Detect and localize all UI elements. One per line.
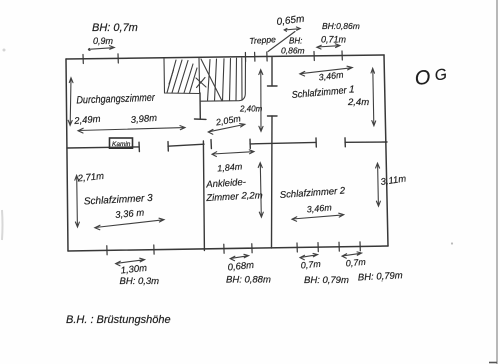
wall vertical x272 upper stub (271, 58, 273, 87)
wall stub x200 below stairs (199, 93, 201, 119)
dim arrow 1,30m (116, 258, 145, 266)
svg-text:Zimmer: Zimmer (205, 191, 240, 204)
dim arrow 1,84m (212, 150, 254, 157)
dim arrow vertical schlafzimmer1 2,4m (371, 68, 376, 125)
svg-text:BH:0,86m: BH:0,86m (322, 21, 360, 31)
wall outer left (66, 59, 68, 251)
window tick x318 bottom (317, 243, 319, 252)
svg-text:O: O (414, 66, 432, 90)
svg-text:0,9m: 0,9m (93, 36, 114, 46)
svg-text:0,65m: 0,65m (276, 14, 305, 28)
dim arrow 0,7m second (342, 252, 362, 258)
svg-text:2,49m: 2,49m (73, 114, 101, 127)
door jamb tick x250 (249, 139, 251, 148)
svg-text:0,68m: 0,68m (227, 260, 254, 274)
dim arrow 3,98m (78, 126, 185, 133)
wall vertical x272 lower run (271, 116, 274, 248)
svg-text:1,30m: 1,30m (120, 263, 147, 277)
window tick x118 top (117, 54, 119, 63)
window tick x360 bottom (359, 242, 361, 251)
svg-text:2,4m: 2,4m (347, 97, 369, 108)
svg-text:3,11m: 3,11m (380, 173, 407, 187)
stairs left box outline (164, 59, 199, 94)
door jamb tick x168 (167, 142, 169, 151)
svg-text:3,46m: 3,46m (306, 202, 332, 214)
dim arrow 0,9m (88, 46, 114, 51)
window tick x255 top (254, 52, 256, 61)
svg-text:BH:: BH: (289, 37, 302, 46)
svg-text:BH: 0,88m: BH: 0,88m (226, 275, 271, 286)
wall outer right (384, 55, 388, 246)
window tick x224 bottom (223, 244, 225, 253)
stairs right box outline (201, 57, 246, 101)
svg-text:0,7m: 0,7m (345, 257, 366, 269)
window tick x342 top (341, 51, 343, 60)
window tick x154 bottom (153, 245, 155, 254)
svg-text:Schlafzimmer: Schlafzimmer (291, 85, 347, 101)
svg-text:BH: 0,7m: BH: 0,7m (92, 22, 138, 34)
svg-text:Schlafzimmer 3: Schlafzimmer 3 (84, 193, 154, 208)
stairs left box hatching (167, 60, 176, 93)
door jamb tick x139 (138, 142, 140, 151)
faint smudge top-left (3, 49, 6, 52)
window tick x314 top (313, 52, 315, 61)
door jamb tick x345 (344, 138, 346, 147)
svg-text:0,7m: 0,7m (300, 259, 321, 271)
stairs x-mark at landing (196, 78, 206, 88)
window tick x297 bottom (296, 243, 298, 252)
wall divider segment D (345, 141, 387, 143)
dim arrow vertical stairs 2,40m (259, 70, 263, 132)
dim arrow 0,65m (284, 27, 300, 31)
stairs boundary x199 (198, 58, 201, 93)
svg-text:2,40m: 2,40m (239, 105, 263, 114)
svg-text:Treppe: Treppe (249, 34, 276, 46)
window tick x83 top (82, 55, 84, 64)
dim arrow 0,71m (317, 44, 340, 49)
svg-text:Kamin: Kamin (112, 141, 131, 148)
dim arrow vertical 2,49m (68, 78, 73, 126)
faint smudge left edge (1, 210, 4, 240)
door jamb T-bar y86 (268, 85, 278, 87)
svg-text:2,2m: 2,2m (241, 191, 263, 202)
svg-text:0,86m: 0,86m (281, 46, 305, 56)
window tick x245 top (244, 53, 246, 62)
svg-text:BH: 0,3m: BH: 0,3m (120, 276, 160, 287)
window tick x339 bottom (338, 242, 340, 251)
wall outer bottom (68, 246, 388, 251)
svg-text:0,71m: 0,71m (321, 35, 347, 45)
scan mark bottom-right (489, 362, 497, 364)
svg-text:G: G (434, 66, 448, 85)
svg-text:1: 1 (349, 85, 355, 96)
door jamb T-bar y116 (268, 115, 278, 117)
dim arrow vertical ankleide 2,2m (258, 163, 263, 217)
svg-text:BH: 0,79m: BH: 0,79m (358, 270, 403, 283)
dim arrow 0,7m first (300, 253, 318, 259)
window tick x252 bottom (251, 244, 253, 253)
svg-text:3,36 m: 3,36 m (115, 207, 145, 220)
svg-text:2,71m: 2,71m (76, 171, 104, 185)
scan edge right (496, 0, 498, 364)
wall divider segment C (250, 142, 316, 144)
wall outer top (66, 55, 384, 59)
dim arrow 3,36m (95, 218, 164, 230)
svg-text:3,46m: 3,46m (318, 69, 345, 82)
kamin box (110, 138, 133, 148)
wall divider segment B (168, 144, 204, 146)
door jamb tick x211 (210, 140, 212, 149)
svg-text:Durchgangszimmer: Durchgangszimmer (76, 92, 155, 107)
stairs right box hatching (201, 59, 222, 101)
svg-text:BH: 0,79m: BH: 0,79m (304, 275, 349, 286)
svg-text:3,98m: 3,98m (130, 113, 157, 126)
pointer line 0,65m window (268, 32, 295, 52)
dim arrow vertical 2,71m (75, 175, 80, 227)
dim arrow vertical 3,11m (376, 163, 381, 206)
wall vertical x204 ankleide-left (203, 141, 204, 251)
dim arrow 3,46m schlafzimmer2 (292, 213, 344, 221)
svg-text:Ankleide-: Ankleide- (205, 177, 246, 191)
stub end T-bar y119 (195, 118, 207, 120)
dim arrow 3,46m top (300, 66, 353, 76)
faint speck above bottom-left text (381, 280, 383, 282)
door jamb tick x316 (315, 138, 317, 147)
svg-text:1,84m: 1,84m (217, 161, 243, 173)
dim arrow 0,68m (230, 254, 248, 260)
dim arrow 2,05m (208, 124, 245, 135)
svg-text:B.H. : Brüstungshöhe: B.H. : Brüstungshöhe (66, 314, 171, 326)
faint speck right margin (451, 242, 453, 244)
wall divider left segment (67, 147, 139, 148)
window tick x267 top (266, 52, 268, 61)
svg-text:Schlafzimmer 2: Schlafzimmer 2 (279, 185, 346, 201)
window tick x107 bottom (106, 246, 108, 255)
